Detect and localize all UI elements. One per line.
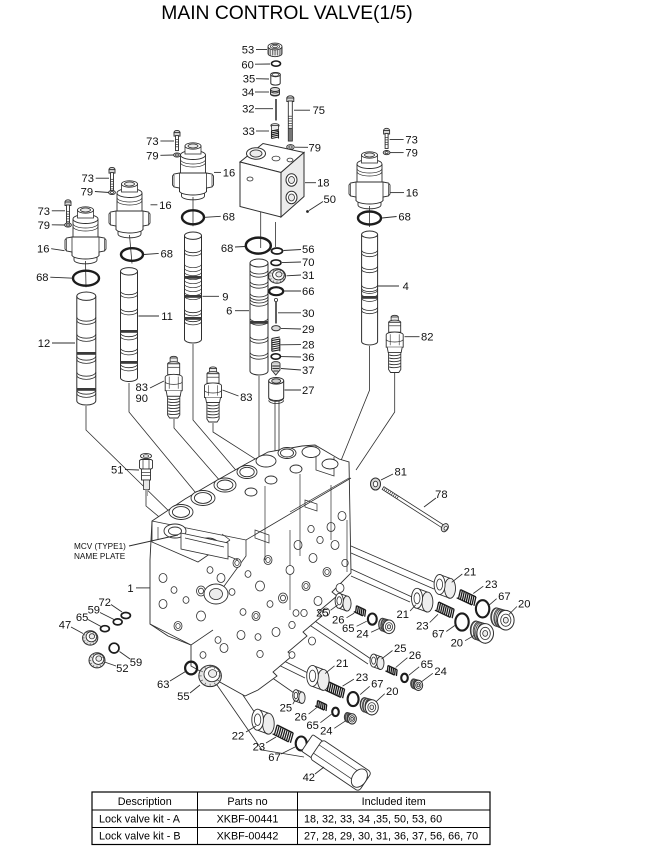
svg-text:29: 29	[302, 324, 314, 336]
bushing 25 c1l	[335, 593, 351, 611]
wire block 18 to o-ring 56	[275, 222, 277, 247]
svg-text:63: 63	[157, 679, 169, 691]
svg-text:12: 12	[38, 338, 50, 350]
svg-text:78: 78	[435, 489, 447, 501]
o-ring 65 c1l	[368, 614, 377, 625]
wire chain c1u upper	[351, 546, 436, 583]
o-ring 59 lower	[109, 643, 119, 653]
nut 79 centre	[287, 145, 295, 150]
svg-text:75: 75	[313, 105, 325, 117]
svg-text:21: 21	[464, 567, 476, 579]
assembly line S2	[130, 235, 133, 264]
wire spool 6 to body	[258, 376, 260, 468]
svg-text:73: 73	[146, 136, 158, 148]
svg-text:73: 73	[38, 206, 50, 218]
svg-text:1: 1	[127, 583, 133, 595]
spool 12	[77, 292, 96, 405]
o-ring 68 S4	[358, 212, 381, 225]
washer stack 34	[271, 88, 280, 97]
solenoid valve 16 S2	[109, 181, 150, 238]
svg-text:60: 60	[241, 59, 253, 71]
svg-text:25: 25	[280, 702, 292, 714]
relief valve 83 right	[205, 367, 222, 422]
svg-text:35: 35	[243, 74, 255, 86]
o-ring 68 under block 18	[246, 238, 271, 254]
wire sleeve 27 to body right	[278, 401, 280, 458]
solenoid valve 16 S1	[65, 207, 106, 264]
svg-text:81: 81	[394, 466, 406, 478]
svg-text:26: 26	[294, 712, 306, 724]
main control valve body 1	[150, 445, 351, 696]
svg-text:16: 16	[37, 244, 49, 256]
spring 28	[272, 337, 280, 351]
svg-text:18, 32, 33, 34 ,35, 50, 53, 60: 18, 32, 33, 34 ,35, 50, 53, 60	[304, 814, 442, 826]
spool 11	[121, 268, 138, 382]
plug 20 c1u	[491, 608, 514, 630]
svg-text:65: 65	[342, 623, 354, 635]
svg-text:79: 79	[38, 220, 50, 232]
svg-text:Parts no: Parts no	[227, 796, 267, 808]
screw 33	[271, 124, 279, 131]
o-ring 36	[271, 354, 280, 359]
svg-text:16: 16	[223, 167, 235, 179]
svg-text:90: 90	[135, 393, 147, 405]
plug 24 c1l	[379, 618, 395, 633]
check valve 42	[301, 733, 372, 791]
body front ports	[159, 512, 348, 659]
assembly line S4	[369, 206, 371, 227]
svg-text:83: 83	[135, 382, 147, 394]
svg-text:16: 16	[406, 188, 418, 200]
svg-text:47: 47	[59, 620, 71, 632]
svg-text:27: 27	[302, 385, 314, 397]
svg-text:23: 23	[356, 672, 368, 684]
wire chain c3u upper	[252, 645, 308, 673]
svg-text:NAME PLATE: NAME PLATE	[74, 552, 126, 561]
svg-text:79: 79	[146, 150, 158, 162]
svg-text:24: 24	[320, 726, 332, 738]
svg-text:67: 67	[432, 629, 444, 641]
bolt 73 S3	[174, 130, 180, 150]
wire sleeve 27 to body left	[274, 401, 276, 458]
svg-text:65: 65	[306, 720, 318, 732]
wire chain c2u lower	[351, 576, 410, 602]
svg-text:51: 51	[111, 465, 123, 477]
svg-text:68: 68	[222, 211, 234, 223]
wire chain c3u lower	[248, 650, 305, 678]
svg-text:Lock valve kit - B: Lock valve kit - B	[99, 831, 181, 843]
svg-text:53: 53	[242, 45, 254, 57]
svg-text:70: 70	[302, 257, 314, 269]
poppet 37	[272, 362, 280, 376]
svg-text:28: 28	[302, 340, 314, 352]
plug 20 c3u	[360, 698, 378, 715]
spring 26 c1l	[354, 606, 366, 617]
svg-text:67: 67	[498, 591, 510, 603]
wire spool 9 to body	[193, 344, 240, 475]
svg-text:65: 65	[421, 659, 433, 671]
body front slots	[200, 474, 347, 572]
svg-text:33: 33	[242, 126, 254, 138]
o-ring 68 S1	[73, 271, 99, 286]
svg-text:27, 28, 29, 30, 31, 36, 37, 56: 27, 28, 29, 30, 31, 36, 37, 56, 66, 70	[304, 831, 478, 843]
svg-text:83: 83	[240, 392, 252, 404]
wire chain c1u lower	[351, 553, 434, 589]
svg-text:52: 52	[116, 663, 128, 675]
svg-text:25: 25	[394, 643, 406, 655]
nut 79 S1	[65, 223, 72, 227]
spring 30	[274, 298, 277, 301]
svg-text:22: 22	[232, 730, 244, 742]
svg-text:67: 67	[268, 752, 280, 764]
o-ring 59 upper	[113, 619, 122, 625]
bushing 25 c3l	[293, 690, 305, 704]
relief valve 82	[386, 315, 403, 372]
bolt 75	[287, 96, 294, 141]
o-ring 67 c1u	[476, 600, 489, 617]
svg-text:56: 56	[302, 244, 314, 256]
svg-text:Lock valve kit - A: Lock valve kit - A	[99, 814, 181, 826]
svg-text:65: 65	[76, 612, 88, 624]
svg-text:59: 59	[88, 605, 100, 617]
spring 23 c2u	[435, 602, 454, 618]
svg-text:82: 82	[421, 332, 433, 344]
bolt 73 S2	[109, 167, 115, 193]
svg-text:MCV (TYPE1): MCV (TYPE1)	[74, 542, 126, 551]
svg-text:67: 67	[371, 679, 383, 691]
valve 51	[140, 453, 153, 496]
o-ring 66	[269, 287, 283, 295]
svg-text:6: 6	[226, 306, 232, 318]
wire chain c3l	[238, 654, 294, 693]
svg-text:26: 26	[409, 650, 421, 662]
spring 26 c3l	[315, 701, 327, 712]
svg-text:36: 36	[302, 352, 314, 364]
svg-text:73: 73	[405, 135, 417, 147]
svg-text:21: 21	[336, 658, 348, 670]
o-ring 67 bottom	[296, 737, 307, 751]
svg-text:59: 59	[130, 657, 142, 669]
svg-text:34: 34	[242, 87, 254, 99]
svg-text:73: 73	[81, 173, 93, 185]
o-ring 65 c3l	[332, 708, 339, 716]
svg-text:Description: Description	[118, 796, 172, 808]
nut 79 S3	[174, 153, 181, 157]
o-ring 68 S3	[182, 210, 204, 224]
plug 31	[269, 269, 286, 283]
solenoid valve 16 S4	[349, 152, 390, 209]
wire valve 83 left to body	[174, 419, 228, 490]
wire valve 51 to body	[146, 496, 170, 526]
bushing 21 c1u	[434, 575, 455, 599]
plug 55	[199, 665, 222, 686]
o-ring 63	[185, 662, 197, 675]
bolt 73 S4	[384, 128, 390, 148]
spool 6	[250, 259, 268, 375]
svg-text:25: 25	[316, 608, 328, 620]
svg-text:79: 79	[308, 142, 320, 154]
svg-text:23: 23	[485, 579, 497, 591]
wire chain c1l	[330, 590, 338, 599]
spring 23 bottom	[273, 725, 294, 743]
spool 9	[185, 232, 202, 343]
wire spool 4 to body	[338, 346, 370, 468]
wire valve 83 right to body	[213, 423, 260, 462]
wire chain c2l lower	[296, 616, 368, 664]
wire chain c2l upper	[300, 611, 371, 659]
pilot block 18	[240, 144, 304, 218]
washer 29	[272, 326, 281, 331]
plug 47	[83, 631, 98, 645]
svg-text:42: 42	[303, 772, 315, 784]
svg-text:23: 23	[416, 620, 428, 632]
plug 52	[89, 653, 105, 668]
name plate	[181, 533, 228, 559]
svg-text:30: 30	[302, 308, 314, 320]
parts table	[92, 792, 490, 845]
o-ring 65 c2l	[401, 674, 408, 682]
svg-text:79: 79	[81, 187, 93, 199]
relief valve 83 left	[165, 356, 182, 418]
svg-text:9: 9	[222, 291, 228, 303]
spring 23 c1u	[457, 590, 476, 606]
plug 24 c3l	[344, 712, 356, 724]
svg-text:79: 79	[405, 148, 417, 160]
bushing 22	[252, 709, 274, 734]
nut 79 S2	[109, 190, 116, 194]
wire block 18 to o-ring 68	[260, 212, 262, 248]
svg-text:66: 66	[302, 286, 314, 298]
bushing 25 c2l	[370, 654, 384, 669]
wire valve 82 to body	[356, 373, 395, 470]
svg-text:23: 23	[253, 741, 265, 753]
wire spool 11 to body	[129, 383, 200, 498]
assembly line S3	[192, 197, 194, 226]
o-ring 60	[272, 61, 281, 66]
svg-text:18: 18	[317, 178, 329, 190]
wire spool 12 to body	[86, 406, 180, 522]
svg-text:68: 68	[160, 248, 172, 260]
assembly line S1	[85, 261, 88, 287]
svg-text:16: 16	[159, 200, 171, 212]
spring rod 32	[275, 99, 277, 121]
o-ring 68 S2	[121, 248, 143, 261]
svg-text:68: 68	[398, 212, 410, 224]
sleeve 27	[269, 378, 284, 401]
washer 81	[371, 478, 381, 490]
o-ring 70	[271, 260, 281, 266]
svg-text:20: 20	[451, 638, 463, 650]
plug 20 c2u	[470, 621, 493, 643]
svg-text:MAIN CONTROL VALVE(1/5): MAIN CONTROL VALVE(1/5)	[161, 3, 412, 24]
svg-text:11: 11	[161, 311, 173, 323]
svg-text:37: 37	[302, 365, 314, 377]
o-ring 72	[121, 613, 130, 619]
spring 23 c3u	[325, 682, 344, 698]
bushing 21 c2u	[412, 588, 433, 612]
svg-text:24: 24	[356, 629, 368, 641]
spring 26 c2l	[386, 666, 398, 677]
bolt 73 S1	[65, 200, 71, 226]
sleeve 35	[271, 73, 281, 86]
nut 79 S4	[383, 151, 390, 155]
o-ring 56	[272, 248, 283, 254]
svg-text:20: 20	[386, 686, 398, 698]
plug 53	[268, 43, 282, 57]
svg-text:72: 72	[98, 597, 110, 609]
svg-text:50: 50	[323, 194, 335, 206]
svg-text:68: 68	[36, 272, 48, 284]
o-ring 65 left	[101, 626, 110, 632]
svg-text:4: 4	[403, 281, 409, 293]
o-ring 67 c3u	[348, 692, 359, 706]
body big bore	[204, 584, 228, 604]
spool 4	[362, 231, 378, 345]
svg-text:XKBF-00442: XKBF-00442	[217, 831, 279, 843]
bushing 21 c3u	[307, 665, 329, 690]
svg-text:55: 55	[177, 691, 189, 703]
svg-text:20: 20	[518, 599, 530, 611]
solenoid valve 16 S3	[173, 143, 214, 200]
wire chain 42	[208, 672, 304, 757]
svg-text:68: 68	[221, 243, 233, 255]
svg-text:21: 21	[396, 609, 408, 621]
plug 24 c2l	[411, 679, 423, 691]
svg-text:Included item: Included item	[362, 796, 426, 808]
svg-text:24: 24	[434, 666, 446, 678]
body top ports	[169, 447, 338, 520]
svg-text:XKBF-00441: XKBF-00441	[217, 814, 279, 826]
wire chain c2u upper	[351, 569, 412, 597]
bolt 78	[381, 484, 450, 533]
o-ring 67 c2u	[455, 613, 468, 630]
wire chain c4	[222, 664, 257, 716]
body deck ports	[164, 524, 219, 552]
svg-text:31: 31	[302, 270, 314, 282]
svg-text:32: 32	[242, 104, 254, 116]
